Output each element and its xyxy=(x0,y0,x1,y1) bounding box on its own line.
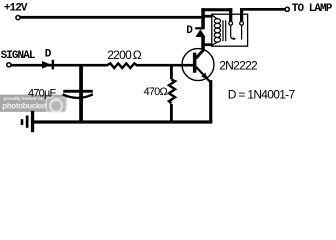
wire signal to base xyxy=(11,64,194,67)
terminal TO LAMP xyxy=(285,7,289,11)
capacitor C1 bottom plate xyxy=(63,94,93,98)
wire relay right contact drop xyxy=(240,8,243,21)
diode D signal triangle xyxy=(42,61,52,69)
capacitor C1 top plate xyxy=(63,90,93,93)
svg-text:470µF: 470µF xyxy=(28,87,56,99)
wire emitter to rail xyxy=(209,80,212,123)
svg-text:+12V: +12V xyxy=(4,3,28,15)
relay coil xyxy=(212,15,220,45)
svg-text:2200Ω: 2200Ω xyxy=(107,48,142,62)
wire coil top stub xyxy=(203,15,212,18)
relay NO contact circle xyxy=(240,21,244,25)
wire ground rail xyxy=(33,120,213,123)
relay core lines xyxy=(223,20,226,41)
wire top bar to lamp xyxy=(240,8,285,11)
svg-text:2N2222: 2N2222 xyxy=(219,59,258,73)
wire collector vertical xyxy=(201,37,205,51)
transistor Q1 base bar xyxy=(193,53,197,73)
svg-text:470Ω: 470Ω xyxy=(144,86,168,98)
watermark camera icon xyxy=(46,96,66,112)
transistor Q1 collector lead xyxy=(196,50,204,59)
diode D signal cathode bar xyxy=(52,60,55,70)
resistor 470 ohm xyxy=(169,80,175,104)
relay armature with arrow xyxy=(231,25,237,40)
wire 470 ohm drop xyxy=(170,65,173,79)
wire relay left contact drop xyxy=(229,8,232,21)
transistor Q1 emitter lead with arrow xyxy=(196,67,210,82)
wire 470 ohm to rail xyxy=(170,104,173,122)
watermark badge background xyxy=(0,95,67,112)
terminal SIGNAL xyxy=(7,63,11,67)
relay common contact circle xyxy=(229,21,233,25)
svg-text:TO LAMP: TO LAMP xyxy=(292,3,333,15)
node junction 12V/diode/contact xyxy=(201,8,205,28)
diode D flyback triangle xyxy=(195,29,205,37)
svg-text:SIGNAL: SIGNAL xyxy=(1,50,36,62)
wire capacitor drop xyxy=(79,65,83,121)
svg-text:D = 1N4001-7: D = 1N4001-7 xyxy=(228,88,296,102)
svg-text:photobucket: photobucket xyxy=(2,102,47,111)
terminal +12V xyxy=(16,16,20,20)
transistor Q1 circle xyxy=(182,49,214,81)
resistor 2200 ohm xyxy=(107,63,138,68)
wire +12V rail xyxy=(20,16,205,19)
relay fixed contact line xyxy=(241,25,243,39)
ground symbol xyxy=(21,111,35,132)
relay K1 box xyxy=(212,14,248,46)
wire coil bottom stub xyxy=(203,43,212,46)
wire top bar to relay common contact xyxy=(201,8,232,11)
diode D flyback cathode bar xyxy=(195,27,204,29)
